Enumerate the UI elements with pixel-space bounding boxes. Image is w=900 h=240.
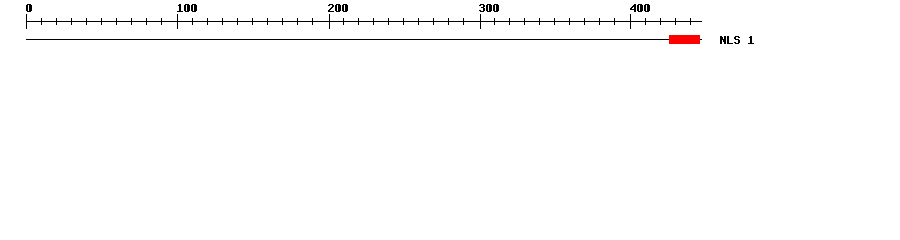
sequence line — [26, 39, 702, 40]
major tick 300 — [480, 14, 481, 29]
major tick 0 — [26, 14, 27, 29]
minor ticks every 10 aa — [41, 18, 42, 25]
label NLS 1 — [720, 36, 722, 37]
major tick 200 — [329, 14, 330, 29]
domain NLS 1 red box — [669, 35, 700, 44]
ruler line — [26, 21, 702, 22]
ruler label 100 — [179, 4, 181, 5]
major tick 400 — [630, 14, 631, 29]
major tick 100 — [177, 14, 178, 29]
ruler label 400 — [634, 4, 636, 5]
ruler label 0 — [27, 4, 31, 5]
ruler label 300 — [480, 4, 484, 5]
ruler label 200 — [329, 4, 333, 5]
